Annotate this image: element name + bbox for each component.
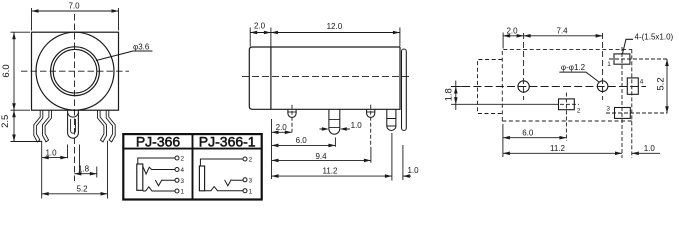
inner ring outer circle — [51, 47, 100, 96]
svg-text:PJ-366: PJ-366 — [136, 133, 181, 149]
svg-text:5.2: 5.2 — [656, 77, 667, 90]
left cell: switch contact to terminal 4 — [143, 167, 175, 174]
top extension line (pcb left) — [502, 33, 504, 49]
pad 1 row horizontal dashes — [609, 58, 668, 60]
vertical center line — [74, 14, 76, 181]
dimension 1.0 line (front) — [42, 157, 68, 159]
dimension 6.0 extension ticks — [11, 32, 31, 110]
bottom left extension line (side) — [271, 119, 273, 179]
right cell: switch contact to terminal 3 — [225, 180, 243, 186]
pin 3 center line — [370, 105, 372, 147]
svg-text:1: 1 — [607, 61, 611, 68]
pin 3 extension tick — [370, 147, 372, 163]
jack body side outline — [249, 47, 400, 109]
svg-text:3: 3 — [249, 178, 253, 185]
svg-text:2.0: 2.0 — [506, 26, 518, 35]
table header divider — [123, 148, 261, 150]
dimension 1.0 arrows at pin2 — [320, 128, 351, 130]
pin 1 crimp bar — [288, 111, 296, 113]
svg-text:1.0: 1.0 — [644, 144, 656, 153]
rear locating strip — [402, 49, 407, 131]
svg-text:PJ-366-1: PJ-366-1 — [199, 133, 256, 149]
pad 3 row horizontal dashes — [606, 112, 668, 114]
pad 1 — [614, 54, 630, 64]
svg-text:7.0: 7.0 — [68, 2, 80, 11]
left cell: terminal 4 circle — [175, 168, 179, 172]
svg-text:12.0: 12.0 — [327, 22, 343, 31]
svg-text:1.0: 1.0 — [351, 121, 363, 130]
svg-text:2: 2 — [249, 157, 253, 164]
pin 2 (side) — [329, 109, 340, 134]
pad 3 — [615, 108, 631, 119]
svg-text:1: 1 — [181, 189, 185, 196]
footprint main outline — [502, 49, 632, 121]
dimension 1.8 top tick — [451, 86, 463, 88]
svg-text:φ-φ1.2: φ-φ1.2 — [561, 63, 586, 72]
pin 3 (side) — [367, 109, 375, 117]
dimension 1.8 line (front) — [74, 173, 96, 175]
dimension 6.0 line — [13, 32, 15, 110]
left cell: wire with tip bump to terminal 1 — [143, 187, 175, 191]
right cell: sleeve contact rectangle — [199, 166, 204, 191]
right cell: terminal 1 circle — [243, 189, 247, 193]
svg-text:4: 4 — [181, 167, 185, 174]
footprint bottom edge — [502, 120, 632, 122]
left cell: terminal 2 circle — [175, 156, 179, 160]
right mounting leg 1 — [106, 110, 115, 141]
top extension lines (side) — [250, 28, 400, 47]
right cell: terminal 3 circle — [243, 178, 247, 182]
outer circle of jack barrel — [36, 32, 114, 110]
dimension 2.0 line (side bottom) — [272, 131, 292, 133]
bottom extension line (pcb) — [502, 124, 504, 157]
svg-text:1: 1 — [249, 188, 253, 195]
horizontal center line — [21, 70, 129, 72]
main horizontal center line (pcb) — [451, 86, 646, 88]
left mounting leg 1 — [34, 110, 43, 141]
svg-text:1.0: 1.0 — [45, 149, 57, 158]
svg-text:5.2: 5.2 — [76, 185, 88, 194]
pin 4 crimp bars — [387, 119, 396, 127]
jack body square — [32, 32, 119, 110]
dimension 2.5 line — [13, 110, 15, 141]
mounting hole right — [597, 81, 608, 92]
hole left center line vertical — [523, 33, 525, 100]
table outer border — [123, 134, 261, 199]
svg-text:1.8: 1.8 — [78, 164, 90, 173]
right cell: terminal 2 circle — [243, 157, 247, 161]
barrel front face line — [270, 47, 272, 109]
extension line body rear edge — [402, 145, 404, 180]
svg-text:6.0: 6.0 — [296, 136, 308, 145]
svg-text:1.8: 1.8 — [444, 88, 455, 101]
dimension 7.0 extension lines — [32, 8, 119, 31]
svg-text:1.0: 1.0 — [407, 166, 419, 175]
extension line from pin right edge — [79, 145, 81, 175]
dimension 7.0 line — [32, 10, 119, 12]
svg-text:2.0: 2.0 — [254, 22, 266, 31]
svg-text:2: 2 — [577, 108, 581, 115]
pad 2 — [559, 99, 575, 110]
svg-text:4-(1.5x1.0): 4-(1.5x1.0) — [635, 33, 674, 42]
left cell: sleeve contact rectangle — [137, 164, 143, 190]
pin 3 crimp bar — [367, 111, 375, 113]
table vertical divider — [192, 134, 194, 199]
svg-text:4: 4 — [640, 78, 644, 85]
leader for phi-phi1.2 — [559, 72, 599, 82]
left cell: wire to terminal 2 — [138, 158, 175, 164]
svg-text:6.0: 6.0 — [522, 128, 534, 137]
right mounting leg 2 — [98, 110, 107, 141]
footprint left outline (barrel) — [478, 60, 503, 114]
bottom left extension line — [41, 141, 43, 199]
dimension 2.0 line (side top) — [250, 32, 271, 34]
center pin collar arc — [68, 113, 79, 117]
left cell: terminal 3 circle — [175, 178, 179, 182]
left cell: switch contact to terminal 3 — [155, 180, 175, 186]
pad 4 — [627, 78, 638, 94]
hole right center line vertical — [602, 33, 604, 100]
dimension 6.0 line (pcb) — [503, 137, 567, 139]
inner ring inner circle (phi 3.6 bore) — [53, 49, 97, 93]
mounting hole left — [518, 81, 529, 92]
dimension 6.0 line (side) — [272, 144, 336, 146]
right cell: wire with tip bump to terminal 1 — [205, 187, 243, 191]
dimension 1.8 line (pcb) — [455, 81, 457, 111]
dimension 2.5 bottom extension tick — [11, 141, 43, 143]
svg-text:3: 3 — [607, 106, 611, 113]
dimension 5.2 line (front) — [42, 193, 108, 195]
pads 1-3 vertical center line — [621, 47, 623, 158]
dimension 7.4 line — [524, 35, 603, 37]
dimension 12.0 line (side top) — [271, 32, 400, 34]
center pin inner shaft — [71, 119, 76, 133]
svg-text:2.5: 2.5 — [0, 115, 11, 128]
dimension 11.2 line (pcb) — [503, 152, 622, 154]
side view center line — [242, 76, 411, 78]
dimension 2.0 line (pcb) — [503, 35, 523, 37]
pad 4 vertical center line — [631, 49, 633, 158]
pin 1 (side) — [288, 109, 296, 117]
svg-text:9.4: 9.4 — [315, 152, 327, 161]
svg-text:7.4: 7.4 — [556, 26, 568, 35]
pin 2 crimp bars — [329, 120, 340, 128]
svg-text:11.2: 11.2 — [323, 167, 339, 176]
pin 4 extension line — [391, 133, 393, 181]
pin 4 (side) — [387, 109, 396, 130]
left mounting leg 2 — [43, 110, 52, 141]
dimension 1.0 arrow (side right) — [403, 175, 411, 177]
pad 2 vertical center line — [565, 93, 567, 142]
extension line from pin left edge — [67, 145, 69, 159]
dimension 1.8 right tick — [96, 167, 98, 178]
bottom right extension line — [107, 141, 109, 199]
pin 1 center line — [291, 105, 293, 133]
svg-text:6.0: 6.0 — [1, 64, 12, 77]
center pin outer outline — [68, 110, 79, 138]
leader for 4-(1.5x1.0) — [623, 39, 634, 53]
svg-text:3: 3 — [181, 178, 185, 185]
dimension 5.2 line (pcb) — [666, 59, 668, 113]
dimension 1.0 line (pcb) — [632, 152, 660, 154]
dimension 11.2 line (side) — [272, 175, 392, 177]
left cell: terminal 1 circle — [175, 189, 179, 193]
svg-text:2.0: 2.0 — [276, 123, 288, 132]
svg-text:φ3.6: φ3.6 — [133, 43, 150, 52]
svg-text:11.2: 11.2 — [550, 144, 566, 153]
svg-text:2: 2 — [181, 156, 185, 163]
pad 2 horizontal line (1.8 extension) — [451, 103, 559, 105]
pin 2 extension tick — [334, 138, 336, 147]
right cell: wire to terminal 2 — [200, 159, 243, 166]
pad 2 horizontal dashes — [560, 103, 579, 105]
leader line for phi3.6 — [96, 51, 153, 61]
dimension 9.4 line (side) — [272, 159, 371, 161]
